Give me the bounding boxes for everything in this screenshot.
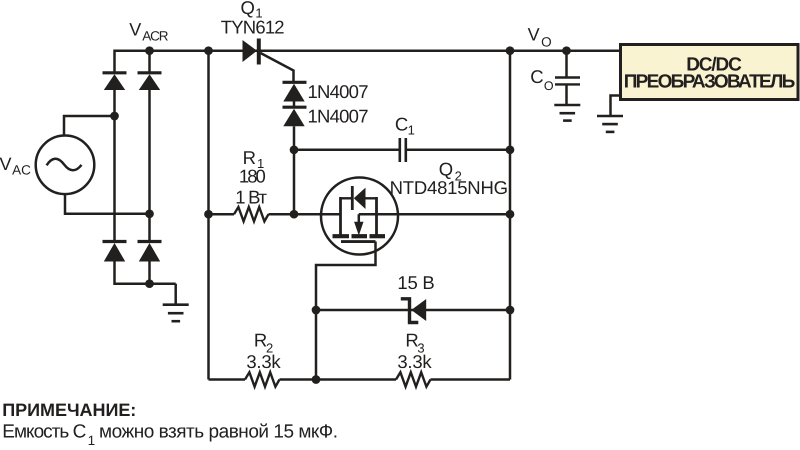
svg-text:15 В: 15 В	[397, 272, 434, 293]
label C1	[395, 114, 415, 138]
wire D1 anode to D3	[113, 90, 116, 240]
resistor R1 180 1W	[209, 207, 341, 221]
transistor Q2 NTD4815NHG	[321, 178, 398, 255]
wire Q2 source to zener node	[316, 242, 376, 380]
svg-text:C: C	[530, 66, 543, 87]
label CO	[530, 66, 554, 93]
svg-text:V: V	[528, 25, 540, 45]
label DC/DC converter	[624, 55, 796, 93]
resistor R3 3.3k	[316, 372, 510, 386]
svg-text:можно взять равной 15 мкФ.: можно взять равной 15 мкФ.	[99, 422, 338, 443]
ground bridge	[163, 284, 189, 322]
ground DC/DC converter	[597, 96, 623, 132]
label VO	[528, 25, 552, 50]
wire D4 anode to bottom rail	[148, 262, 151, 284]
svg-text:ACR: ACR	[142, 29, 169, 44]
wire AC top terminal	[64, 116, 115, 136]
svg-text:Емкость С: Емкость С	[2, 422, 86, 443]
wire D3 anode to bottom rail	[115, 262, 176, 284]
diode D6 1N4007	[283, 107, 307, 126]
svg-text:ПРЕОБРАЗОВАТЕЛЬ: ПРЕОБРАЗОВАТЕЛЬ	[624, 72, 796, 93]
node AC top junction dot	[110, 112, 119, 121]
label R1	[235, 147, 267, 207]
wire C1 left	[294, 149, 399, 152]
diode D3 (bridge lower-left)	[103, 242, 127, 262]
label R3	[397, 330, 432, 372]
wire left bus vertical	[207, 51, 210, 380]
node left-bus top dot	[204, 46, 213, 55]
svg-text:C: C	[395, 114, 408, 135]
wire AC bottom terminal	[65, 194, 150, 214]
wire D2 anode to D4	[148, 90, 151, 240]
block DC/DC converter	[621, 45, 799, 100]
wire right bus vertical	[509, 51, 512, 380]
zener diode D7 15V	[401, 299, 426, 323]
svg-text:1 Вт: 1 Вт	[235, 187, 267, 208]
node VACR junction dot	[145, 46, 154, 55]
svg-text:1: 1	[408, 123, 415, 138]
wire D5 anode to D6	[293, 101, 296, 107]
resistor R2 3.3k	[209, 372, 317, 386]
label VACR	[129, 20, 168, 44]
svg-text:NTD4815NHG: NTD4815NHG	[390, 177, 508, 198]
wire D6 anode down to R1 wire	[293, 126, 296, 214]
svg-text:1N4007: 1N4007	[308, 106, 369, 127]
diode D5 1N4007	[283, 82, 307, 101]
label Q1	[221, 0, 285, 38]
svg-text:3.3k: 3.3k	[246, 351, 281, 372]
label Q2	[390, 159, 508, 198]
ground CO	[554, 105, 580, 121]
node R1 left dot	[204, 210, 213, 219]
svg-text:O: O	[544, 79, 554, 93]
diode D4 (bridge lower-right)	[138, 242, 162, 262]
wire top rail VACR to box	[115, 51, 620, 72]
svg-text:1N4007: 1N4007	[308, 81, 369, 102]
node right bus C1 dot	[506, 145, 515, 154]
wire Q2 drain to right bus	[377, 213, 511, 216]
svg-text:1: 1	[88, 433, 96, 448]
svg-text:3.3k: 3.3k	[397, 351, 432, 372]
node bridge bottom rail dot	[145, 279, 154, 288]
svg-text:AC: AC	[12, 163, 31, 178]
node bottom rail mid dot	[312, 375, 321, 384]
svg-text:V: V	[129, 20, 141, 40]
thyristor Q1 TYN612	[243, 39, 294, 82]
capacitor C1	[400, 138, 406, 162]
AC source VAC	[36, 136, 95, 195]
node right bus drain dot	[506, 210, 515, 219]
wire C1 right to right bus	[407, 149, 510, 152]
svg-text:Q: Q	[241, 0, 255, 18]
node C1 tap dot	[290, 145, 299, 154]
node AC bottom junction dot	[145, 209, 154, 218]
svg-text:O: O	[541, 34, 552, 49]
node right bus zener dot	[506, 306, 515, 315]
node R1 right dot	[290, 210, 299, 219]
svg-text:V: V	[0, 154, 12, 174]
diode D1 (bridge upper-left)	[103, 73, 127, 90]
svg-text:ПРИМЕЧАНИЕ:: ПРИМЕЧАНИЕ:	[2, 400, 136, 420]
wire zener rail	[316, 309, 510, 312]
node zener left dot	[312, 306, 321, 315]
label VAC	[0, 154, 31, 178]
capacitor CO	[555, 51, 580, 104]
node VO dot	[506, 46, 515, 55]
diode D2 (bridge upper-right)	[138, 73, 162, 90]
svg-text:180: 180	[239, 166, 266, 187]
node CO tap dot	[562, 46, 571, 55]
label R2	[246, 330, 281, 372]
note body text	[2, 422, 338, 448]
svg-text:TYN612: TYN612	[221, 17, 285, 38]
wire top rail to D2	[148, 51, 151, 72]
